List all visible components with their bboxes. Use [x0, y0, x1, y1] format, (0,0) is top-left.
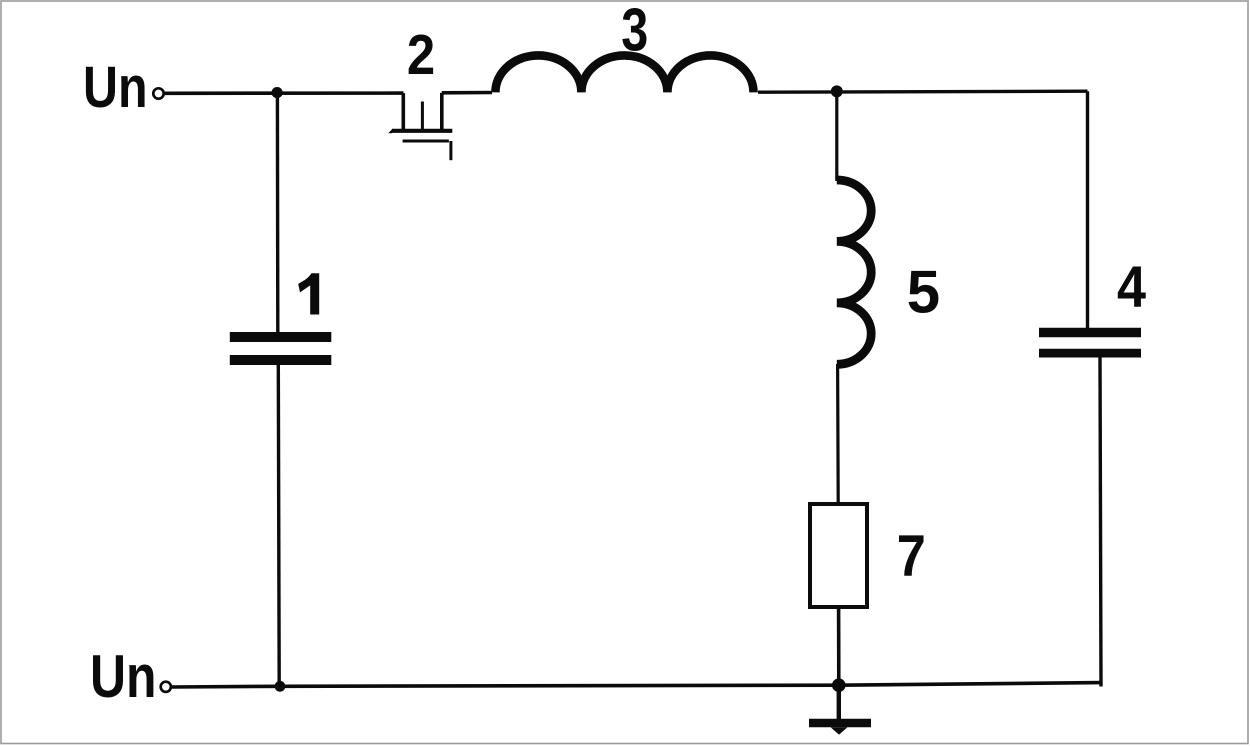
wire transistor to inductor 3 [442, 91, 492, 95]
wire node to inductor 5 [835, 91, 838, 181]
svg-text:Un: Un [83, 55, 148, 120]
inductor 5 [837, 180, 871, 364]
node top of capacitor 1 [272, 87, 283, 98]
svg-text:4: 4 [1117, 254, 1146, 319]
node bottom of capacitor 1 [275, 681, 286, 692]
ground [809, 685, 871, 734]
terminal Un bottom [161, 682, 171, 692]
svg-text:7: 7 [897, 524, 926, 589]
label 1 [298, 273, 319, 314]
wire inductor 5 to resistor 7 [836, 364, 840, 503]
capacitor 1 [230, 93, 331, 687]
wire top rail left [164, 91, 404, 95]
svg-text:3: 3 [621, 0, 648, 63]
terminal Un top [153, 88, 163, 98]
inductor 3 [495, 55, 753, 92]
wire resistor 7 to bottom rail [837, 609, 841, 686]
node ground junction [832, 678, 846, 692]
wire inductor 3 to right corner [758, 91, 1088, 92]
wire bottom rail [172, 683, 1102, 687]
svg-text:2: 2 [407, 23, 435, 87]
resistor 7 [810, 504, 867, 607]
svg-text:Un: Un [90, 642, 157, 710]
svg-text:5: 5 [907, 259, 940, 326]
capacitor 4 [1039, 91, 1141, 686]
node top of inductor 5 [831, 85, 843, 97]
transistor 2 [388, 93, 452, 160]
